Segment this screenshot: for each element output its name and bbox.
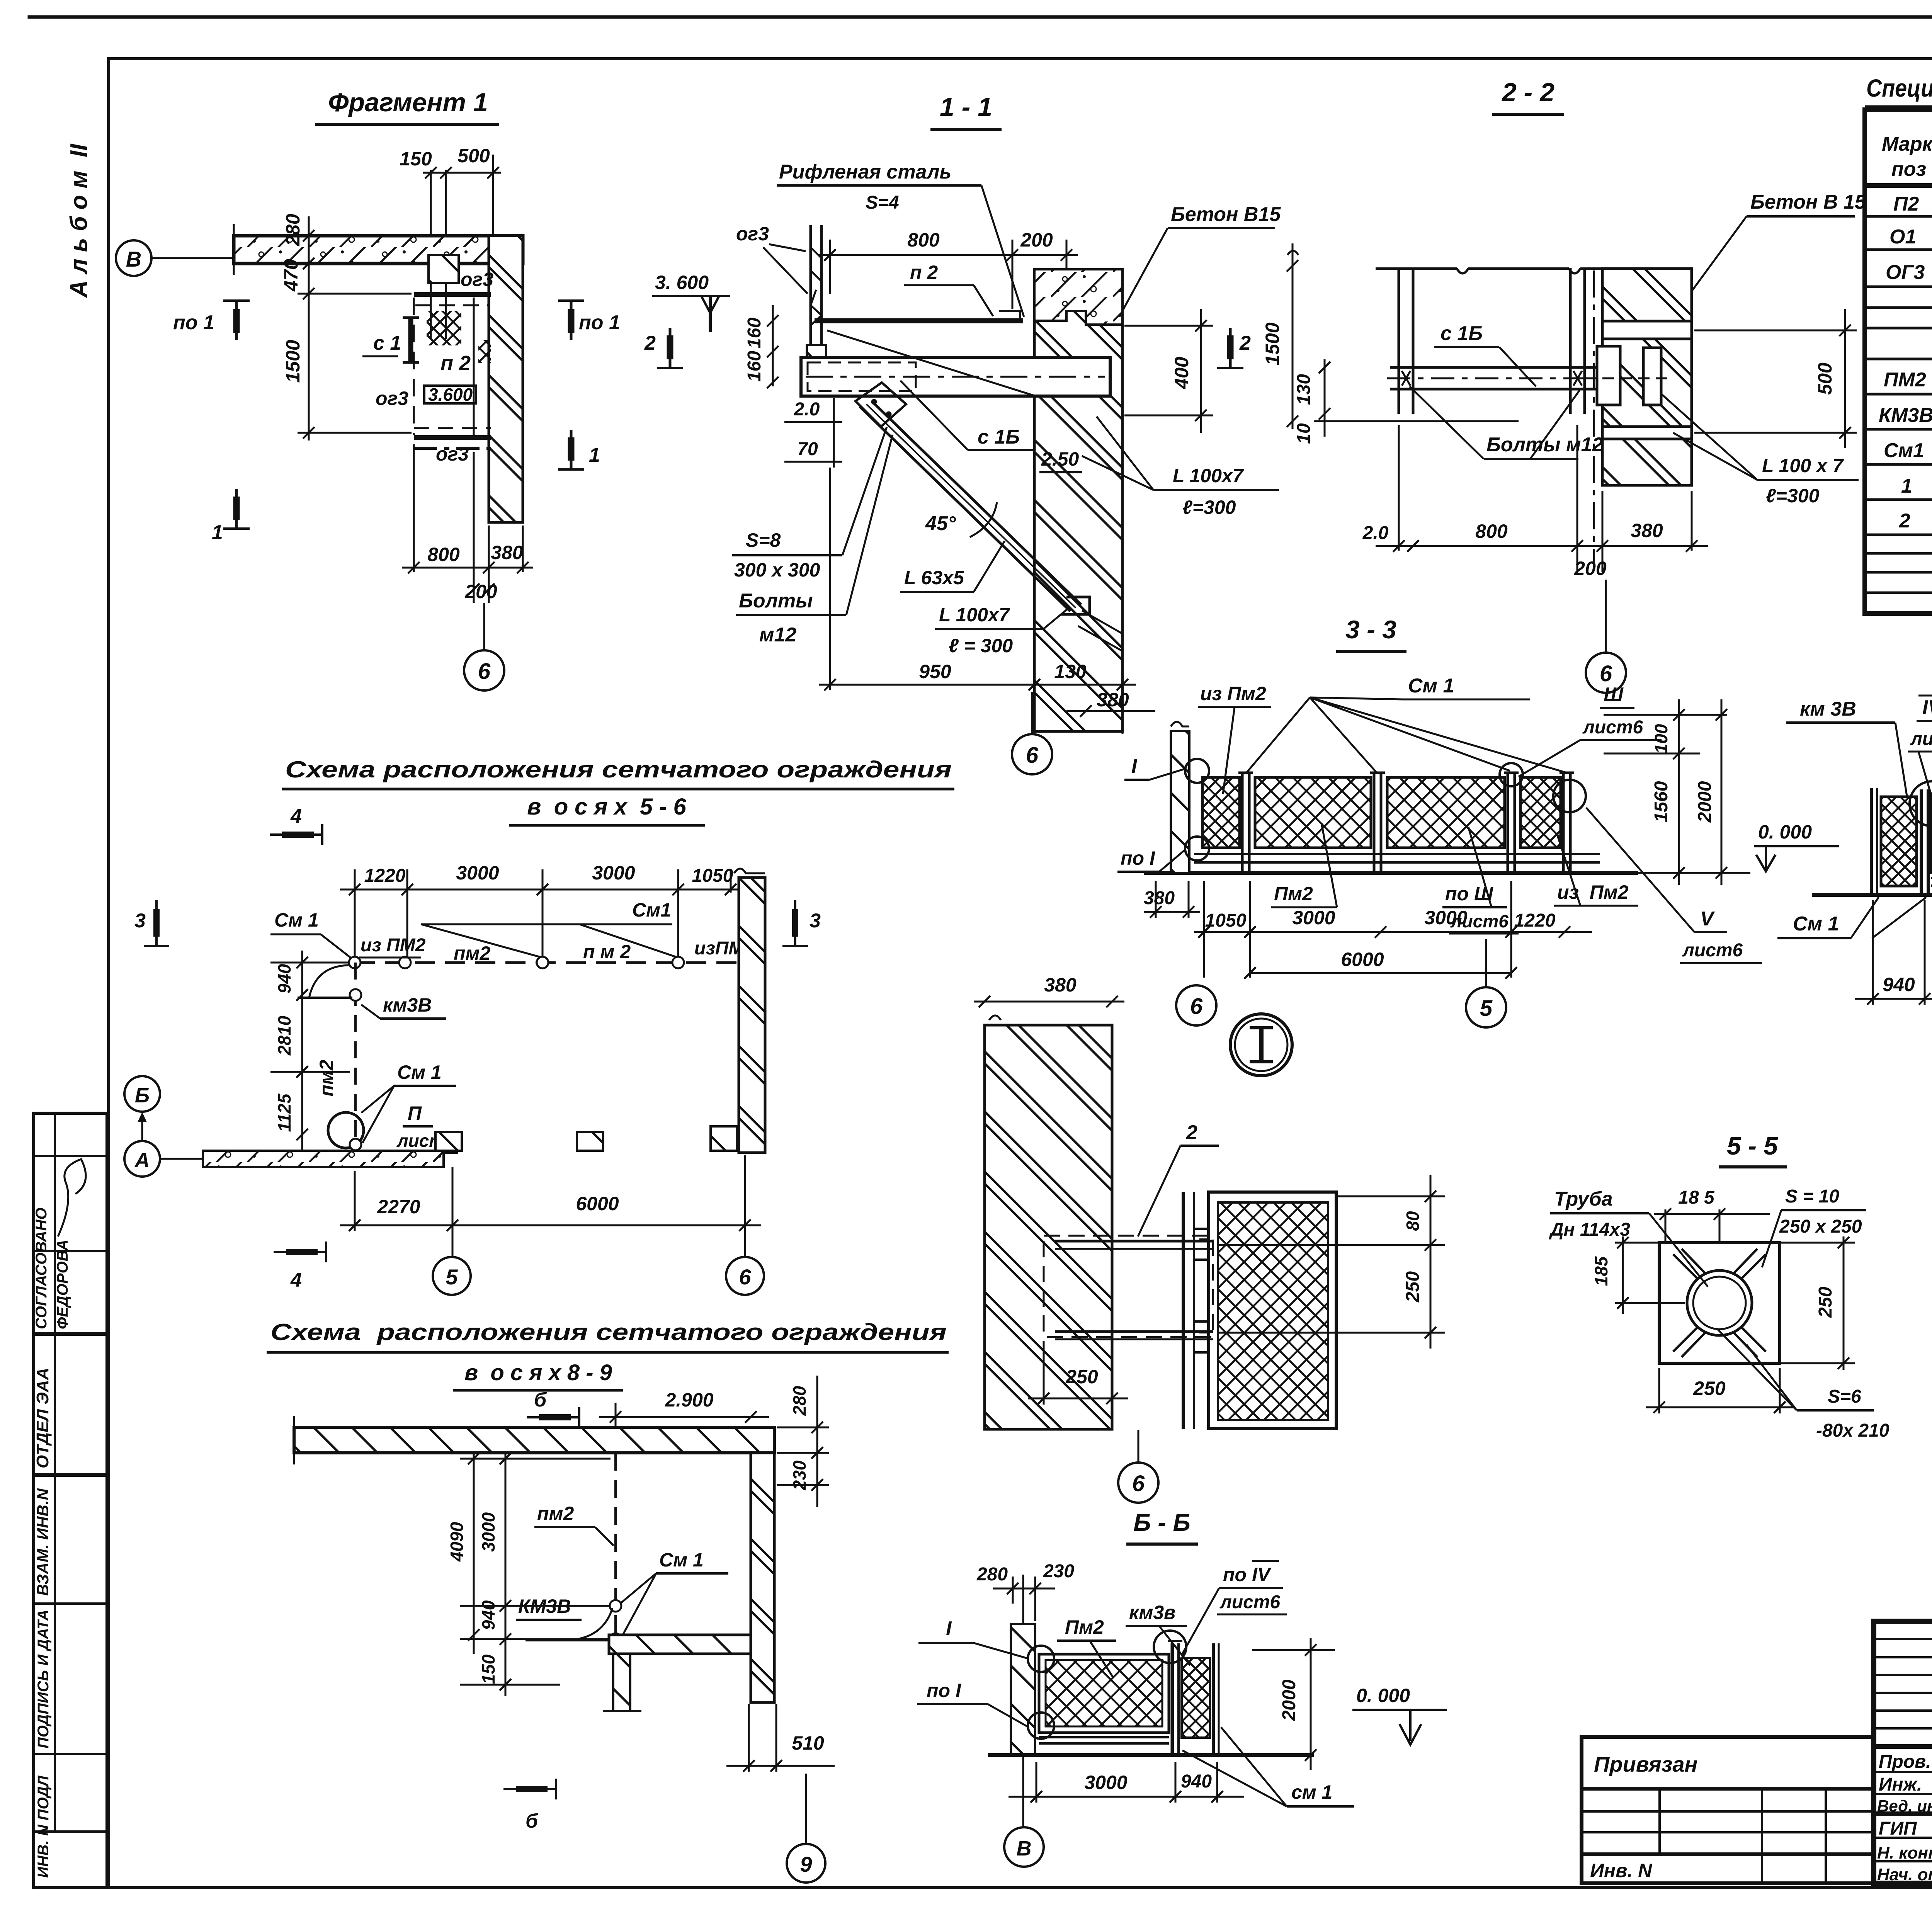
svg-text:км3в: км3в [1129,1602,1175,1623]
svg-text:1220: 1220 [1514,910,1556,931]
support channel C16 [801,357,1110,396]
svg-text:Привязан: Привязан [1594,1752,1697,1776]
cut mark 2 left [657,328,683,368]
svg-text:В: В [1017,1837,1032,1860]
left dim chain [298,216,425,440]
svg-text:км3В: км3В [383,994,432,1016]
wall hatched [1602,269,1692,485]
bolt rods [1055,1240,1213,1243]
svg-text:1 - 1: 1 - 1 [940,92,992,122]
post circles [610,1600,621,1612]
diagonal brace [855,383,1090,614]
mesh patch [427,311,461,345]
svg-text:б: б [534,1389,547,1411]
svg-text:18 5: 18 5 [1678,1187,1715,1208]
gate mesh [1182,1658,1210,1738]
svg-text:6000: 6000 [1341,949,1384,970]
svg-text:ФЕДОРОВА: ФЕДОРОВА [54,1240,71,1329]
svg-text:Пм2: Пм2 [1274,883,1313,905]
svg-text:См 1: См 1 [659,1549,704,1571]
svg-text:ОТДЕЛ ЭАА: ОТДЕЛ ЭАА [33,1368,52,1468]
svg-text:Вед. инж.: Вед. инж. [1877,1797,1932,1815]
svg-text:5 - 5: 5 - 5 [1727,1131,1778,1160]
wall section hatched [489,236,523,522]
svg-text:См 1: См 1 [397,1061,442,1083]
gate left post [1870,788,1873,893]
og3 anchor block [429,255,459,283]
svg-text:3000: 3000 [478,1512,498,1552]
svg-text:800: 800 [907,229,940,251]
svg-text:2000: 2000 [1695,781,1715,823]
gate post [1171,1643,1174,1755]
svg-text:ГИП: ГИП [1879,1818,1917,1839]
top slab concrete [294,1427,774,1453]
svg-text:2810: 2810 [274,1015,294,1056]
mesh panel PM2 [1039,1654,1169,1733]
svg-text:150: 150 [478,1654,498,1684]
wall hatched [985,1025,1112,1429]
tie rod dashed [1585,378,1673,379]
svg-text:См 1: См 1 [1408,675,1454,697]
svg-text:L 100х7: L 100х7 [1173,465,1244,486]
axis arrow between [141,1116,143,1141]
axis circle 5 [433,1257,471,1295]
svg-text:Фрагмент 1: Фрагмент 1 [328,88,488,117]
svg-text:ПМ2: ПМ2 [1884,369,1926,391]
svg-text:380: 380 [491,542,523,563]
left hanger pair [1398,268,1400,414]
spec table title underline [1865,105,1932,108]
ground line [988,1753,1314,1757]
svg-text:с 1Б: с 1Б [978,426,1020,448]
svg-text:940: 940 [274,964,294,993]
svg-text:2.0: 2.0 [794,399,820,420]
post circles [349,957,361,968]
svg-text:400: 400 [1171,357,1192,389]
svg-text:200: 200 [1020,229,1053,251]
concrete zone top of wall [1034,269,1122,325]
svg-text:пм2: пм2 [537,1503,574,1524]
svg-text:Инж.: Инж. [1879,1774,1922,1795]
axis leader line [151,257,232,259]
svg-text:470: 470 [280,259,302,292]
svg-text:250: 250 [1815,1287,1836,1318]
bottom dim line [402,444,533,603]
svg-text:пм2: пм2 [316,1060,337,1097]
svg-text:в о с я х 5 - 6: в о с я х 5 - 6 [527,794,686,820]
svg-text:ОГ3: ОГ3 [1886,261,1925,284]
svg-text:4: 4 [290,805,302,828]
svg-text:280: 280 [282,214,304,247]
svg-text:СОГЛАСОВАНО: СОГЛАСОВАНО [33,1207,50,1329]
svg-text:6000: 6000 [576,1193,619,1214]
svg-text:ПОДПИСЬ И ДАТА: ПОДПИСЬ И ДАТА [35,1609,52,1748]
ground line [1812,893,1932,897]
cut mark po1 top-left [223,301,250,340]
page top edge line [29,15,1932,19]
svg-text:в о с я х 8 - 9: в о с я х 8 - 9 [464,1360,612,1385]
svg-text:6: 6 [1132,1471,1145,1496]
svg-text:800: 800 [427,544,460,565]
spec table outer border [1865,110,1932,614]
bottom dim chain [340,1155,761,1256]
svg-text:380: 380 [1631,520,1663,541]
svg-text:1050: 1050 [692,866,733,886]
svg-text:S = 10: S = 10 [1785,1186,1839,1207]
svg-text:из Пм2: из Пм2 [1200,683,1266,704]
title block horizontals left narrow rows [1874,1638,1932,1640]
bottom dims [1009,1762,1244,1803]
svg-text:940: 940 [1883,974,1915,995]
fence ground line [1144,871,1638,875]
svg-text:пм2: пм2 [454,942,491,964]
left stamp row lines [34,1155,107,1157]
svg-text:В: В [126,247,141,271]
svg-text:КМ3В: КМ3В [1879,404,1932,427]
svg-text:ИНВ. N ПОДЛ: ИНВ. N ПОДЛ [35,1775,52,1878]
corbel band top [1602,321,1692,339]
svg-text:Марка.: Марка. [1882,133,1932,155]
svg-text:Схема расположения сетчатого: Схема расположения сетчатого ограждения [270,1319,947,1345]
bolt plate 2 [1643,348,1661,405]
cut mark 1 bottom-right [558,430,584,469]
svg-text:800: 800 [1475,520,1508,542]
svg-text:из ПМ2: из ПМ2 [361,935,426,956]
svg-text:230: 230 [1043,1561,1074,1582]
svg-text:230: 230 [789,1460,810,1490]
top dim chain [340,869,761,958]
axis circle 6 [1176,985,1216,1026]
svg-text:Болты: Болты [739,590,813,612]
svg-text:3000: 3000 [456,862,499,884]
right vertical dims [1600,699,1750,885]
gate latch node circle [1154,1631,1186,1663]
svg-text:3 - 3: 3 - 3 [1345,615,1396,644]
mesh panel [1209,1192,1336,1429]
svg-text:1500: 1500 [282,340,304,383]
svg-text:Бетон В 15: Бетон В 15 [1750,191,1866,213]
bottom dim line [1376,425,1708,572]
svg-text:2.900: 2.900 [665,1389,713,1411]
svg-text:L 100х7: L 100х7 [939,604,1010,626]
svg-text:Ш: Ш [1604,684,1624,706]
svg-text:1: 1 [1901,475,1912,497]
svg-text:500: 500 [457,145,490,167]
axis circle 6 [464,650,504,690]
plan cut mark 4 bottom [274,1242,326,1262]
svg-text:6: 6 [478,659,491,684]
svg-text:2: 2 [644,332,656,354]
svg-text:См 1: См 1 [274,909,319,931]
base plate square [1659,1243,1780,1363]
svg-text:2 - 2: 2 - 2 [1501,78,1554,107]
right post [1212,1643,1215,1755]
top slab line with break [1376,269,1604,274]
axis circle 6 [1118,1463,1158,1503]
svg-text:Пров.: Пров. [1879,1752,1931,1772]
axis circle 6 [1586,653,1626,693]
svg-text:L 63х5: L 63х5 [904,567,964,588]
svg-text:Инв. N: Инв. N [1590,1860,1652,1881]
axis circle A [124,1141,160,1177]
railing post dashed verticals [413,298,415,435]
cut mark 2 right [1217,328,1243,368]
axis circle V [1004,1827,1044,1867]
deck plate [815,318,1023,323]
svg-text:п 2: п 2 [440,352,471,375]
svg-text:О1: О1 [1889,226,1916,248]
svg-text:3000: 3000 [1292,907,1335,929]
svg-text:2: 2 [1899,510,1910,532]
ground slab concrete [203,1151,444,1167]
svg-text:3: 3 [134,910,146,932]
svg-text:Дн 114х3: Дн 114х3 [1549,1219,1630,1240]
svg-text:ог3: ог3 [436,443,469,465]
svg-text:I: I [1131,755,1138,777]
svg-text:940: 940 [1181,1771,1212,1792]
svg-text:Б - Б: Б - Б [1133,1509,1190,1536]
svg-text:км 3В: км 3В [1800,698,1856,720]
svg-text:Схема расположения сетчатого о: Схема расположения сетчатого ограждения [285,757,952,782]
svg-text:ℓ=300: ℓ=300 [1766,485,1820,507]
svg-text:3000: 3000 [592,862,635,884]
axis circle V [116,240,151,276]
svg-text:1220: 1220 [364,866,406,886]
platform top rails [414,292,491,297]
svg-text:Спецификация элементов площадк: Спецификация элементов площадки на отм 3… [1866,74,1932,102]
svg-text:по I: по I [927,1680,961,1701]
signature squiggle [58,1159,86,1236]
svg-text:4090: 4090 [447,1522,467,1562]
node circles [1028,1646,1054,1672]
svg-text:940: 940 [478,1600,498,1630]
plan cut mark b bottom [503,1779,556,1799]
node II big circle [328,1112,364,1148]
svg-text:3.600: 3.600 [428,384,473,405]
svg-text:с 1: с 1 [373,332,401,354]
svg-text:300 х 300: 300 х 300 [734,559,820,581]
latch node circle [1910,781,1932,826]
column blocks [435,1132,462,1151]
svg-text:200: 200 [1574,558,1607,579]
level 3.600 box [424,386,476,403]
svg-text:ог3: ог3 [376,388,408,409]
anchor dashed box [1044,1236,1213,1337]
svg-text:лист6: лист6 [1219,1592,1281,1612]
left stamp column inner divider [54,1113,56,1832]
svg-text:45°: 45° [925,512,956,535]
gusset diagonals [1673,1249,1766,1357]
svg-text:ℓ = 300: ℓ = 300 [949,635,1013,656]
svg-text:3. 600: 3. 600 [655,272,709,293]
svg-text:А л ь б о м II: А л ь б о м II [66,143,92,298]
svg-text:см 1: см 1 [1291,1781,1333,1803]
svg-text:Пм2: Пм2 [1065,1616,1104,1638]
axis circle 9 [787,1844,825,1883]
concrete floor slab [234,236,523,264]
bottom dim chain [1144,881,1592,979]
svg-text:6: 6 [739,1265,751,1289]
svg-text:250 х 250: 250 х 250 [1779,1216,1862,1237]
right wall [739,878,765,1153]
svg-text:V: V [1700,908,1715,930]
svg-text:6: 6 [1190,994,1203,1019]
svg-text:510: 510 [792,1732,824,1754]
svg-text:с 1Б: с 1Б [1440,322,1483,345]
svg-text:См1: См1 [632,899,671,921]
fence posts [1238,773,1574,873]
node circles on wall [1185,759,1209,783]
svg-text:2: 2 [1186,1121,1197,1144]
svg-text:П: П [408,1102,422,1124]
svg-text:См 1: См 1 [1793,913,1839,935]
axis circle 6 [1012,734,1052,774]
svg-text:250: 250 [1403,1271,1423,1303]
mesh panels [1202,777,1240,848]
svg-text:950: 950 [919,661,951,682]
svg-text:160: 160 [744,351,765,382]
bolt plate 1 [1597,346,1620,405]
svg-text:Рифленая сталь: Рифленая сталь [779,161,951,183]
svg-text:I: I [946,1617,952,1640]
svg-text:1: 1 [589,444,600,466]
svg-text:2: 2 [1239,332,1251,354]
bottom dims [819,468,1155,734]
svg-text:по 1: по 1 [579,311,620,334]
svg-text:IV: IV [1922,696,1932,719]
svg-text:по IV: по IV [1223,1564,1272,1585]
svg-text:0. 000: 0. 000 [1758,821,1812,843]
svg-text:из Пм2: из Пм2 [1557,881,1629,903]
wall column left [1171,731,1189,873]
title block outer border [1874,1621,1932,1883]
svg-text:-80х 210: -80х 210 [1816,1420,1889,1441]
cut mark po1 top-right [558,301,584,340]
dim line top [423,172,501,174]
pipe circle [1687,1270,1752,1335]
svg-text:п м 2: п м 2 [583,941,631,963]
svg-text:380: 380 [1144,888,1175,908]
svg-text:L 100 х 7: L 100 х 7 [1762,455,1844,476]
slab end ticks [233,224,235,275]
axis circle 5 [1466,987,1506,1027]
svg-text:ℓ=300: ℓ=300 [1182,497,1236,518]
svg-text:1500: 1500 [1262,322,1283,365]
svg-text:6: 6 [1600,661,1612,686]
svg-text:м12: м12 [759,624,796,646]
svg-text:2270: 2270 [377,1196,420,1218]
axis circle B [124,1076,160,1112]
svg-text:1125: 1125 [274,1093,294,1132]
svg-text:лист6: лист6 [1682,940,1743,961]
post channel [1182,1192,1185,1429]
cut mark 1 bottom-left [223,489,250,529]
title block name rows [1874,1771,1932,1773]
svg-text:380: 380 [1044,974,1077,996]
svg-text:Нач. отд: Нач. отд [1877,1865,1932,1884]
svg-text:100: 100 [1651,724,1671,753]
bottom rails [1194,853,1600,855]
svg-text:5: 5 [1480,996,1493,1021]
right wall [751,1453,774,1702]
platform bottom rails [414,427,491,429]
right hanger pair [1569,268,1572,414]
axis circle 6 [726,1257,764,1295]
svg-text:Н. контр.: Н. контр. [1877,1844,1932,1862]
svg-text:Б: Б [135,1084,150,1107]
panel bottom rails [1931,877,1932,879]
svg-text:лист6: лист6 [1910,729,1932,749]
svg-text:0. 000: 0. 000 [1356,1685,1410,1706]
svg-text:130: 130 [1294,374,1314,405]
svg-text:S=6: S=6 [1828,1386,1861,1407]
middle post [1920,789,1923,893]
corbel band bottom [1602,427,1692,439]
svg-text:250: 250 [1693,1378,1726,1399]
svg-text:5: 5 [446,1265,458,1289]
svg-text:по I: по I [1121,847,1155,869]
svg-text:185: 185 [1591,1256,1611,1286]
svg-text:А: А [134,1149,150,1172]
svg-text:б: б [526,1810,539,1832]
s1 post symbol [408,318,413,362]
svg-text:2.50: 2.50 [1041,448,1079,470]
gate hinge circle [350,989,361,1001]
svg-text:S=8: S=8 [746,529,781,551]
wall axis line [1022,1575,1024,1827]
svg-text:ВЗАМ. ИНВ.N: ВЗАМ. ИНВ.N [34,1488,52,1596]
svg-text:П2: П2 [1893,193,1919,215]
gate swing arc [309,965,349,998]
svg-text:См1: См1 [1884,439,1924,462]
svg-text:п 2: п 2 [910,262,938,283]
svg-text:лист6: лист6 [1582,717,1643,738]
extension lines [430,170,432,339]
svg-text:70: 70 [797,439,818,459]
svg-text:1: 1 [212,521,223,544]
rail beam [1390,366,1626,369]
svg-text:3: 3 [810,910,821,932]
node circle on post3 [1500,763,1523,786]
lower slab [609,1635,751,1654]
svg-text:1050: 1050 [1205,910,1247,931]
railing post left [807,225,826,361]
fence dashed axis [614,1453,617,1639]
column below slab [613,1654,630,1711]
svg-text:160: 160 [744,318,765,349]
svg-text:280: 280 [789,1386,810,1416]
svg-text:10: 10 [1294,423,1314,444]
svg-text:ог3: ог3 [461,269,493,290]
svg-text:150: 150 [400,148,432,170]
svg-text:130: 130 [1054,661,1087,682]
svg-text:2.0: 2.0 [1362,523,1389,543]
wall strip [1011,1624,1035,1755]
bottom dims [1855,900,1932,1005]
svg-text:Труба: Труба [1554,1188,1613,1210]
svg-text:Бетон В15: Бетон В15 [1171,203,1281,226]
node I marker [1230,1014,1292,1076]
svg-text:поз: поз [1891,158,1926,180]
svg-text:4: 4 [290,1269,302,1291]
left stamp column outer box [34,1113,107,1888]
big mesh panel [1931,794,1932,872]
svg-text:S=4: S=4 [866,192,899,213]
svg-text:380: 380 [1097,689,1129,711]
gate mesh panel [1881,797,1917,886]
svg-text:9: 9 [800,1852,812,1876]
bolt symbols [1402,371,1410,386]
